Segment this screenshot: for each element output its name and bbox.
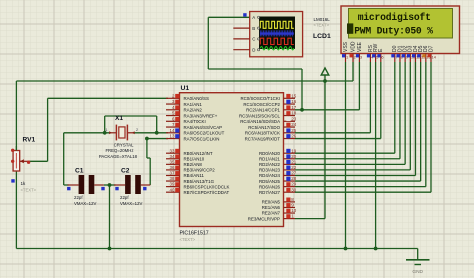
svg-text:LCD1: LCD1 [313,33,331,40]
svg-text:18: 18 [291,111,296,116]
svg-text:PIC16F1517: PIC16F1517 [180,230,209,236]
svg-text:VMAX=12V: VMAX=12V [120,201,142,206]
svg-text:VMAX=12V: VMAX=12V [74,201,96,206]
svg-text:VSS: VSS [343,41,349,52]
svg-text:3: 3 [360,56,362,60]
svg-text:16: 16 [291,99,296,104]
svg-text:RC2/AN14/CCP1: RC2/AN14/CCP1 [246,108,280,113]
svg-text:17: 17 [291,105,296,110]
svg-text:X1: X1 [115,115,123,122]
svg-text:RD5/AN25: RD5/AN25 [259,179,281,184]
svg-text:D7: D7 [428,45,434,52]
svg-text:RC7/AN19/RX/DT: RC7/AN19/RX/DT [245,136,281,141]
svg-text:RB6/ICSPCLK/ICDCLK: RB6/ICSPCLK/ICDCLK [184,184,230,189]
svg-text:24: 24 [291,122,296,127]
svg-text:RD2/AN22: RD2/AN22 [259,162,281,167]
svg-text:30: 30 [291,187,296,192]
svg-text:26: 26 [291,134,296,139]
svg-text:RA3/AN3/VREF+: RA3/AN3/VREF+ [184,113,218,118]
svg-text:19: 19 [291,148,296,153]
svg-text:RB3/AN9/CCP2: RB3/AN9/CCP2 [184,168,216,173]
svg-text:RA1/AN1: RA1/AN1 [184,102,203,107]
svg-text:13: 13 [170,134,175,139]
svg-text:A: A [252,15,255,20]
svg-text:25: 25 [291,128,296,133]
svg-text:RE3/MCLR/VPP: RE3/MCLR/VPP [248,216,280,221]
svg-text:RB1/AN10: RB1/AN10 [184,156,205,161]
svg-text:39: 39 [170,182,175,187]
svg-text:RA7/OSC1/CLKIN: RA7/OSC1/CLKIN [184,136,220,141]
svg-text:22pf: 22pf [74,195,83,200]
svg-text:<TEXT>: <TEXT> [21,188,37,193]
svg-text:RE0/AN5: RE0/AN5 [262,200,281,205]
svg-text:CRYSTAL: CRYSTAL [114,142,134,147]
svg-text:GND: GND [412,269,423,275]
svg-text:36: 36 [170,165,175,170]
svg-text:38: 38 [170,176,175,181]
svg-text:2: 2 [354,56,356,60]
svg-text:RC5/AN17/SDO: RC5/AN17/SDO [248,125,280,130]
svg-text:RD1/AN21: RD1/AN21 [259,156,281,161]
svg-text:15: 15 [291,93,296,98]
svg-text:C1: C1 [75,167,84,174]
svg-text:40: 40 [170,187,175,192]
svg-text:PACKAGE=XTAL18: PACKAGE=XTAL18 [99,154,138,159]
svg-text:RA5/AN4/SS/VCAP: RA5/AN4/SS/VCAP [184,125,223,130]
svg-text:RD7/AN27: RD7/AN27 [259,190,281,195]
svg-text:<TEXT>: <TEXT> [314,22,330,27]
svg-text:22: 22 [291,165,296,170]
svg-text:6: 6 [381,56,383,60]
svg-text:RB7/ICSPDAT/ICDDAT: RB7/ICSPDAT/ICDDAT [184,190,230,195]
svg-text:RE2/AN7: RE2/AN7 [262,211,281,216]
svg-text:RC6/AN18/TX/CK: RC6/AN18/TX/CK [245,131,280,136]
svg-text:21: 21 [291,159,296,164]
svg-text:14: 14 [170,128,175,133]
svg-text:VEE: VEE [357,41,363,52]
svg-text:microdigisoft: microdigisoft [358,12,431,23]
svg-text:1k: 1k [21,181,27,186]
svg-text:FREQ=20MHz: FREQ=20MHz [105,148,133,153]
svg-text:RC0/SOSCO/T1CKI: RC0/SOSCO/T1CKI [240,96,280,101]
svg-text:U1: U1 [181,85,190,92]
svg-text:RC1/SOSCI/CCP2: RC1/SOSCI/CCP2 [243,102,280,107]
svg-text:RV1: RV1 [23,137,36,144]
svg-text:37: 37 [170,171,175,176]
svg-text:28: 28 [291,176,296,181]
svg-text:RD0/AN20: RD0/AN20 [259,151,281,156]
svg-text:35: 35 [170,159,175,164]
svg-text:20: 20 [291,154,296,159]
svg-text:RE1/AN6: RE1/AN6 [262,205,281,210]
svg-text:C2: C2 [121,167,130,174]
svg-text:RB2/AN8: RB2/AN8 [184,162,203,167]
svg-text:LM016L: LM016L [314,17,331,22]
svg-text:RD6/AN26: RD6/AN26 [259,184,281,189]
svg-text:RB4/AN11: RB4/AN11 [184,173,205,178]
svg-text:10: 10 [291,208,296,213]
svg-text:RC4/AN16/SDI/SDA: RC4/AN16/SDI/SDA [240,119,280,124]
svg-text:22pf: 22pf [120,195,129,200]
svg-text:23: 23 [291,116,296,121]
svg-text:RD3/AN23: RD3/AN23 [259,168,281,173]
svg-text:1: 1 [105,128,107,132]
svg-text:29: 29 [291,182,296,187]
svg-text:RC3/AN15/SCK/SCL: RC3/AN15/SCK/SCL [239,113,281,118]
svg-text:27: 27 [291,171,296,176]
svg-text:RA6/OSC2/CLKOUT: RA6/OSC2/CLKOUT [184,131,225,136]
svg-text:33: 33 [170,148,175,153]
svg-text:2: 2 [136,128,138,132]
svg-text:RA4/T0CKI: RA4/T0CKI [184,119,206,124]
svg-text:RD4/AN24: RD4/AN24 [259,173,281,178]
svg-text:RB0/AN12/INT: RB0/AN12/INT [184,151,213,156]
svg-text:RA2/AN2: RA2/AN2 [184,108,203,113]
svg-text:RA0/AN0/SS: RA0/AN0/SS [184,96,209,101]
svg-text:C: C [252,37,255,42]
svg-text:D: D [252,48,255,53]
svg-text:PWM Duty:050 %: PWM Duty:050 % [354,25,433,36]
svg-text:B: B [252,26,255,31]
svg-text:VDD: VDD [350,41,356,52]
svg-text:RB5/AN13/T1G: RB5/AN13/T1G [184,179,215,184]
svg-text:1: 1 [346,56,348,60]
svg-text:34: 34 [170,154,175,159]
svg-text:<TEXT>: <TEXT> [180,237,196,242]
svg-text:14: 14 [432,56,436,60]
